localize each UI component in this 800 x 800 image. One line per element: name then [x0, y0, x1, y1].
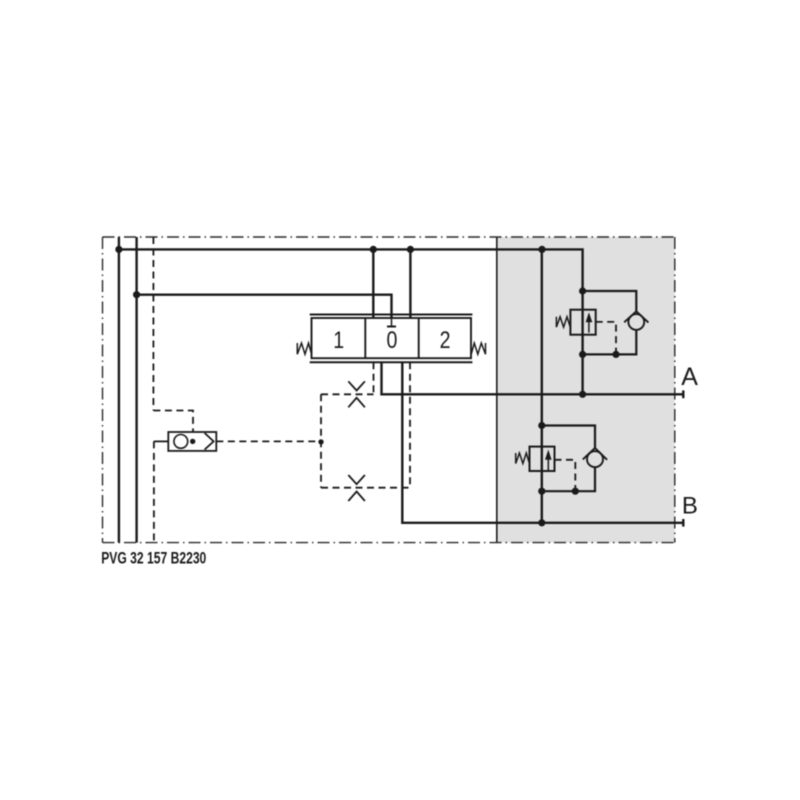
svg-text:2: 2	[440, 326, 451, 354]
svg-text:1: 1	[333, 326, 344, 354]
svg-text:PVG 32 157 B2230: PVG 32 157 B2230	[101, 550, 206, 568]
svg-text:A: A	[681, 363, 698, 391]
svg-text:B: B	[682, 492, 698, 519]
svg-text:0: 0	[386, 326, 397, 354]
